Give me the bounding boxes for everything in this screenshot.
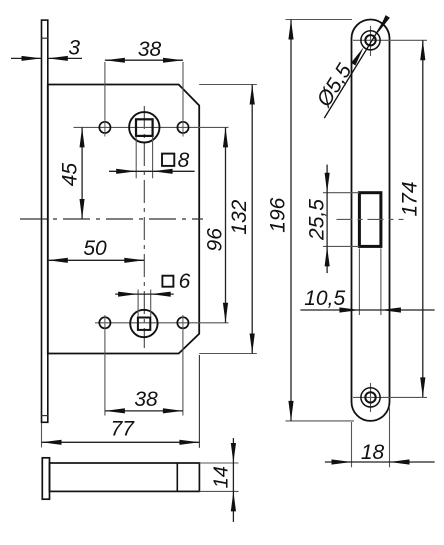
svg-text:132: 132 [228,199,251,234]
svg-text:3: 3 [68,37,80,60]
top spindle square hole [136,119,153,136]
dim 8 right arrow (pointing left) [153,169,173,174]
svg-text:77: 77 [111,418,136,441]
bottom screw hole outer circle [361,388,380,407]
bottom left screw hole [99,317,110,328]
bottom spindle square hole [138,318,150,330]
dim 132 down arrow [250,334,255,354]
vertical spindle axis centerline [143,106,145,348]
bottom screw hole inner circle [365,392,375,402]
dim 174 up arrow [420,40,425,60]
dim 38 top right extension [182,62,184,120]
dim 38 bottom left arrow [105,408,125,413]
dim 3 left leader [11,57,42,59]
dim 3 right arrow [48,56,68,61]
dim 6 right arrow (pointing left) [151,292,171,297]
dim 8 line [109,170,195,172]
dim 3 right leader [48,57,82,59]
svg-text:96: 96 [203,228,226,252]
dim 18 line [325,461,435,463]
bottom square right edge extension [150,290,152,318]
svg-text:174: 174 [399,181,422,216]
top screw hole crosshair horizontal [353,39,427,41]
dim 25.5 bottom extension [323,245,360,247]
dim 132 up arrow [250,85,255,105]
dim 45 down arrow [80,199,85,219]
bottom right hole vertical tick [182,315,184,331]
dim 10.5 right arrow (pointing left) [381,307,401,312]
dim 196 top extension [286,19,353,21]
latch horizontal centerline [337,218,404,220]
square symbol for 6 [162,276,173,287]
horizontal center axis dashed line [20,218,203,220]
dim 132 top extension (body top edge ext) [199,84,257,86]
dim 196 down arrow [288,401,293,421]
dim 96 line [225,127,227,322]
dim 3 left arrow [22,56,42,61]
dim 38 bottom right arrow [163,408,183,413]
dim 45 line [81,127,83,219]
dim 196 up arrow [288,20,293,40]
top right hole vertical tick [182,120,184,137]
dim 10.5 left arrow (pointing right) [339,307,359,312]
dim 132 line [251,85,253,354]
dim 45 up arrow [80,127,85,147]
dim 38 bottom left extension [104,331,106,416]
latch hole rectangle (bold) [359,193,381,247]
dim 8 left arrow (pointing right) [116,169,136,174]
dim 38 top line [105,59,183,61]
dim 196 bottom extension [286,420,355,422]
dim 196 line [290,20,292,421]
dim 18 right arrow (pointing left) [390,459,410,464]
top holes horizontal centerline [74,126,229,128]
top right screw hole [177,122,188,133]
bottom left hole vertical tick [104,315,106,331]
dim 77 right arrow [179,440,199,445]
dim 50 line [48,259,145,261]
dim 50 right arrow [124,258,144,263]
top square left edge extension [135,137,137,179]
dim 25.5 top extension [323,192,360,194]
dim 10.5 right extension [380,249,382,316]
dim 132 bottom extension (body bottom edge ext) [199,353,257,355]
dim 18 left extension [351,422,353,467]
top spindle circle [129,112,159,142]
dia 5.5 lower arrow [351,47,364,65]
dim 96 down arrow [223,303,228,323]
dim 18 left arrow (pointing right) [332,459,352,464]
dim 25.5 bottom arrow (pointing up) [325,246,330,266]
dim 25.5 top arrow (pointing down) [325,173,330,193]
faceplate strip upper tick [42,37,48,39]
bottom screw hole crosshair vertical [370,383,372,412]
svg-text:18: 18 [361,441,385,464]
bottom view body bar [50,463,200,491]
top left screw hole [99,122,110,133]
dim 50 left arrow [48,258,68,263]
dim 38 top right arrow [163,58,183,63]
svg-text:14: 14 [210,466,232,488]
faceplate strip lower tick [42,415,48,417]
top square right edge extension [152,137,154,179]
dim 14 bottom extension [199,490,238,492]
dim 14 top arrow (pointing down) [231,443,236,463]
bottom view divider line [176,463,178,491]
dim 38 bottom line [105,410,183,412]
svg-text:50: 50 [83,237,107,260]
dim 14 line [232,438,234,522]
dim 77 left arrow [42,440,62,445]
dim 25.5 line [326,165,328,274]
dim 14 bottom arrow (pointing up) [231,491,236,511]
bottom spindle circle [130,310,157,337]
top screw hole inner circle [365,35,375,45]
dim 10.5 line [300,309,434,311]
dim 14 top extension [199,462,238,464]
dim 77 line [42,441,200,443]
bottom view faceplate cap [42,458,49,499]
top screw hole outer circle [361,31,380,50]
svg-text:25,5: 25,5 [305,199,328,241]
svg-text:196: 196 [267,197,290,232]
dim 10.5 left extension [358,249,360,316]
svg-text:6: 6 [179,270,191,293]
dim 174 down arrow [420,377,425,397]
faceplate front outline (rounded ends) [352,19,390,420]
dim 174 line [422,40,424,397]
svg-text:10,5: 10,5 [304,287,345,310]
square symbol for 8 [162,154,174,166]
dim 96 up arrow [223,127,228,147]
bottom screw hole crosshair horizontal [353,396,427,398]
dia 5.5 leader line [324,17,386,118]
bottom holes horizontal centerline [95,322,229,324]
dim 38 top left extension [104,62,106,120]
svg-text:38: 38 [138,38,162,61]
dim 77 right extension [198,355,200,448]
faceplate side view strip [42,20,48,422]
dim 38 top left arrow [105,58,125,63]
dim 38 bottom right extension [182,331,184,416]
svg-text:45: 45 [58,163,81,187]
svg-text:8: 8 [178,149,190,172]
bottom right screw hole [177,317,188,328]
top left hole vertical tick [104,120,106,137]
lock body outline [48,85,199,354]
dim 77 left extension [41,423,43,448]
dim 6 left arrow (pointing right) [118,292,138,297]
dim 6 line [115,293,174,295]
svg-text:38: 38 [134,388,158,411]
top screw hole crosshair vertical [370,26,372,56]
dim 18 right extension [389,406,391,467]
bottom square left edge extension [137,290,139,318]
dia 5.5 upper arrow [377,15,390,33]
